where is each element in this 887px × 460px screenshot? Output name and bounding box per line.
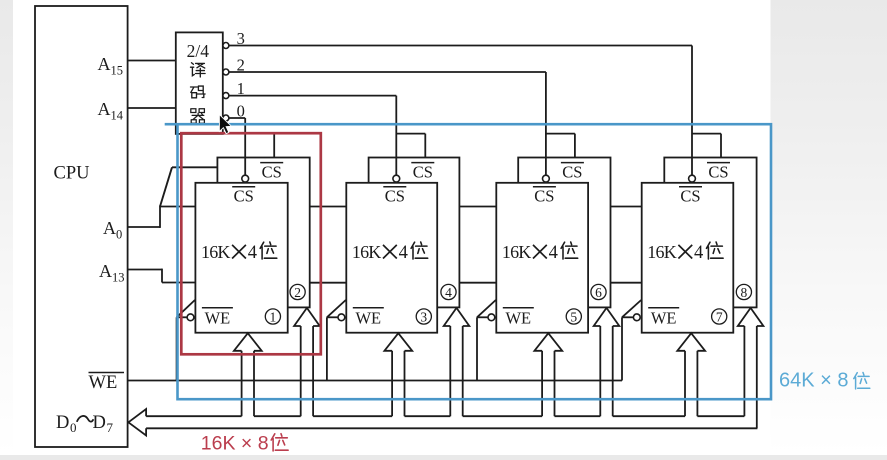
svg-text:CS: CS	[680, 187, 700, 206]
wire A0 from CPU with step	[128, 206, 160, 228]
svg-text:CS: CS	[562, 162, 582, 181]
svg-text:4: 4	[445, 285, 452, 300]
pin label circled number 5 on front chip	[566, 309, 581, 324]
decoder output 1 bubble and wire to group 2	[223, 79, 396, 99]
memory chip 5 (front, 16K×4位) of group 3	[496, 183, 588, 333]
wire WE branch group 4 with bubble	[622, 300, 641, 381]
pin label circled number 1 on front chip	[265, 309, 280, 324]
data arrow into chip 4	[444, 308, 470, 416]
decoder output 3 bubble and wire to group 4	[223, 29, 692, 49]
svg-text:WE: WE	[89, 373, 118, 393]
wire decoder output drop to CS of group 2	[393, 96, 425, 182]
blue highlight box 64K×8位 whole array	[165, 124, 771, 399]
memory chip 7 (front, 16K×4位) of group 4	[642, 183, 734, 333]
wire A14 CPU to decoder	[128, 107, 176, 109]
data arrow into chip 8	[738, 308, 764, 428]
wire address tap to back chip 2 left edge	[172, 166, 217, 168]
svg-text:16K: 16K	[647, 242, 676, 262]
data arrow into chip 3	[384, 333, 412, 416]
svg-text:14: 14	[111, 109, 124, 123]
svg-text:WE: WE	[355, 309, 381, 328]
pin label circled number 3 on front chip	[416, 309, 431, 324]
svg-text:1: 1	[237, 79, 245, 98]
svg-text:13: 13	[112, 271, 125, 285]
wire A13 from CPU with step	[128, 269, 196, 283]
red label 16K × 8位	[201, 432, 288, 454]
data arrow into chip 5	[534, 333, 562, 416]
pin label circled number 4 on back chip	[441, 284, 456, 299]
svg-text:2: 2	[237, 56, 245, 75]
pin label circled number 7 on front chip	[712, 309, 727, 324]
svg-text:A: A	[103, 218, 116, 238]
svg-text:64K × 8: 64K × 8	[779, 370, 849, 392]
wire address tap A0 to front chip 1	[160, 206, 195, 208]
pin label circled number 8 on back chip	[736, 284, 751, 299]
mouse cursor pointer	[219, 115, 231, 134]
svg-text:WE: WE	[505, 309, 531, 328]
memory chip 3 (front, 16K×4位) of group 2	[346, 183, 437, 333]
svg-text:4: 4	[399, 243, 408, 263]
svg-text:WE: WE	[651, 309, 677, 328]
memory chip 2 (back, 16K×4位) of group 1	[217, 158, 309, 308]
svg-text:CS: CS	[534, 187, 554, 206]
svg-text:16K: 16K	[352, 242, 381, 262]
svg-text:4: 4	[694, 243, 703, 263]
svg-text:3: 3	[237, 29, 245, 48]
svg-text:16K: 16K	[502, 242, 531, 262]
svg-text:CS: CS	[413, 162, 433, 181]
wire WE branch group 2 with bubble	[327, 300, 346, 381]
address bus diagonal slash	[160, 167, 172, 206]
svg-text:CS: CS	[385, 187, 405, 206]
svg-text:0: 0	[116, 228, 122, 242]
svg-text:CS: CS	[234, 187, 254, 206]
svg-text:7: 7	[716, 309, 723, 324]
svg-text:5: 5	[570, 309, 577, 324]
data arrow into chip 6	[594, 308, 620, 416]
wire address taps between group 3 and 4	[611, 207, 642, 283]
svg-text:CPU: CPU	[54, 164, 90, 184]
svg-text:A: A	[98, 99, 111, 119]
data bus top line segments	[146, 415, 744, 417]
wire decoder output drop to CS of group 4	[689, 46, 721, 183]
svg-text:CS: CS	[262, 162, 282, 181]
svg-text:4: 4	[248, 243, 257, 263]
wire decoder output drop to CS of group 1	[242, 118, 274, 182]
memory chip 1 (front, 16K×4位) of group 1	[195, 183, 287, 333]
svg-text:0: 0	[237, 102, 245, 121]
svg-text:A: A	[98, 54, 111, 74]
memory chip 4 (back, 16K×4位) of group 2	[369, 158, 460, 308]
wire WE bus from CPU	[128, 380, 622, 382]
svg-text:0: 0	[70, 420, 77, 435]
svg-text:1: 1	[270, 309, 277, 324]
svg-text:16K × 8: 16K × 8	[201, 432, 269, 454]
svg-text:15: 15	[111, 64, 124, 78]
svg-text:4: 4	[549, 243, 558, 263]
memory chip 6 (back, 16K×4位) of group 3	[518, 158, 610, 308]
CPU box U-CPU	[35, 6, 128, 447]
blue label 64K × 8位	[779, 370, 870, 392]
svg-text:D: D	[93, 413, 106, 433]
svg-text:6: 6	[595, 285, 602, 300]
wire A15 CPU to decoder	[128, 60, 176, 62]
decoder output 2 bubble and wire to group 3	[223, 56, 546, 76]
red highlight box 16K×8位 group	[181, 133, 320, 354]
pin label circled number 6 on back chip	[591, 284, 606, 299]
wire address taps between group 2 and 3	[459, 207, 496, 283]
data bus bottom line	[146, 427, 757, 429]
decoder output 0 bubble and wire to group 1	[223, 102, 245, 122]
2/4 decoder U-DEC	[176, 32, 223, 133]
svg-text:7: 7	[107, 420, 114, 435]
data arrow into chip 2	[294, 308, 320, 416]
svg-text:A: A	[99, 261, 112, 281]
svg-text:2/4: 2/4	[187, 41, 210, 61]
data arrow into chip 1	[234, 333, 262, 416]
wire decoder output drop to CS of group 3	[543, 72, 575, 182]
svg-text:16K: 16K	[201, 242, 230, 262]
svg-text:CS: CS	[708, 162, 728, 181]
wire address taps between group 1 and 2	[310, 207, 347, 283]
wire WE branch group 3 with bubble	[477, 300, 496, 381]
data arrow into chip 7	[677, 333, 705, 416]
svg-text:8: 8	[741, 285, 748, 300]
pin label circled number 2 on back chip	[290, 284, 305, 299]
svg-text:3: 3	[420, 309, 427, 324]
svg-text:2: 2	[294, 285, 301, 300]
svg-text:WE: WE	[205, 309, 231, 328]
wire WE branch group 1 with bubble	[177, 300, 195, 381]
memory chip 8 (back, 16K×4位) of group 4	[664, 158, 756, 308]
svg-text:D: D	[56, 413, 69, 433]
data bus D0-D7 hollow arrow into CPU	[128, 409, 146, 436]
